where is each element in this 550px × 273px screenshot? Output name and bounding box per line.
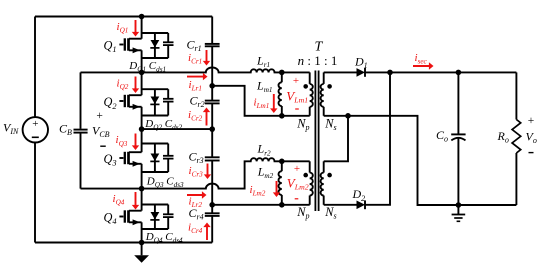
svg-text:+: + bbox=[294, 163, 300, 175]
svg-text:+: + bbox=[32, 118, 38, 130]
svg-text:+: + bbox=[528, 115, 535, 127]
svg-text:n : 1 : 1: n : 1 : 1 bbox=[298, 53, 338, 68]
svg-text:+: + bbox=[293, 75, 299, 87]
svg-text:+: + bbox=[96, 110, 103, 122]
